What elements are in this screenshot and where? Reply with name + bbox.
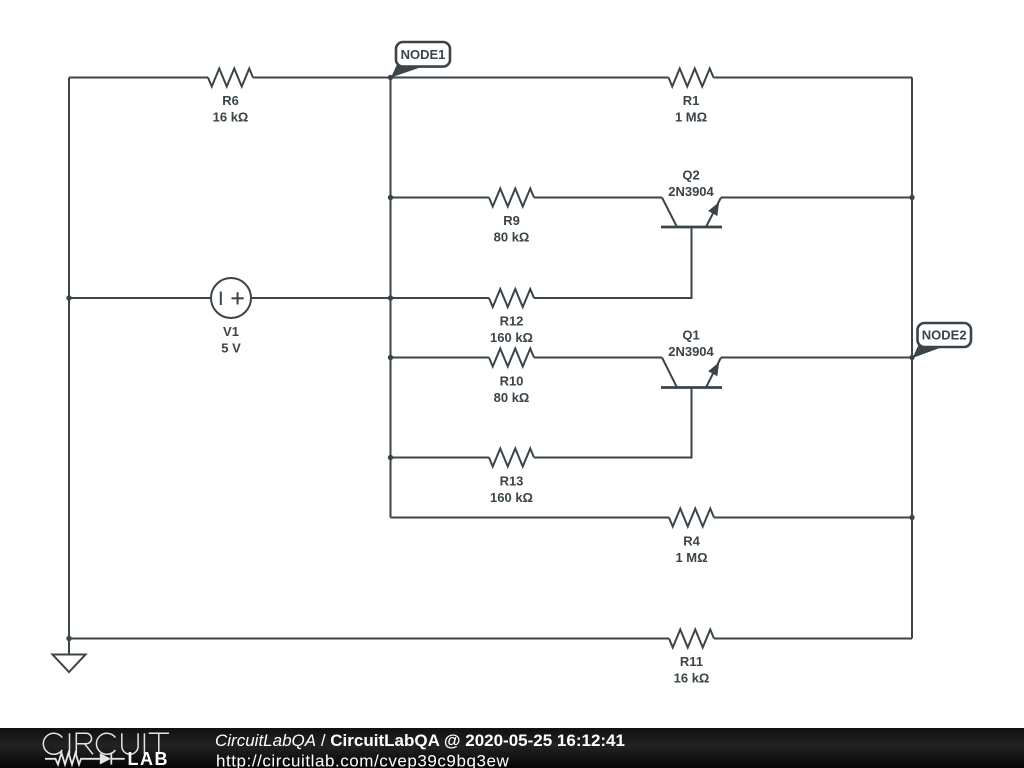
resistor R1 <box>669 69 714 87</box>
wire <box>534 197 662 199</box>
wire <box>69 638 669 640</box>
junction <box>909 515 914 520</box>
svg-text:16 kΩ: 16 kΩ <box>213 110 249 125</box>
wire <box>911 78 913 639</box>
resistor R11 label <box>674 654 710 686</box>
svg-text:R4: R4 <box>683 534 700 549</box>
voltage source V1 <box>211 278 251 318</box>
svg-text:V1: V1 <box>223 324 239 339</box>
junction <box>388 295 393 300</box>
CircuitLab logo diode <box>100 753 111 765</box>
voltage source V1 label <box>221 324 241 356</box>
footer bar <box>0 728 1024 768</box>
resistor R13 label <box>490 474 533 506</box>
svg-text:Q1: Q1 <box>682 328 699 343</box>
svg-text:LAB: LAB <box>128 749 170 768</box>
svg-text:R1: R1 <box>683 93 700 108</box>
wire <box>534 388 692 458</box>
ground <box>53 639 86 673</box>
svg-text:R6: R6 <box>222 93 239 108</box>
svg-text:2N3904: 2N3904 <box>668 184 714 199</box>
wire <box>534 227 692 298</box>
resistor R11 <box>669 630 714 648</box>
node flag NODE2 <box>913 323 972 358</box>
wire <box>721 357 912 359</box>
resistor R10 label <box>494 374 530 406</box>
wire <box>714 77 913 79</box>
svg-text:R12: R12 <box>500 314 524 329</box>
junction <box>388 455 393 460</box>
svg-text:R13: R13 <box>500 474 524 489</box>
resistor R12 label <box>490 314 533 346</box>
CircuitLab logo CIRCUIT lettering <box>43 733 169 754</box>
wire <box>390 78 392 518</box>
junction <box>909 195 914 200</box>
svg-text:2N3904: 2N3904 <box>668 344 714 359</box>
wire <box>714 517 912 519</box>
resistor R9 <box>489 189 534 207</box>
wire <box>721 197 912 199</box>
transistor Q1 <box>661 358 722 388</box>
wire <box>391 517 670 519</box>
resistor R6 <box>208 69 253 87</box>
wire <box>253 77 669 79</box>
wire <box>714 638 912 640</box>
svg-text:R11: R11 <box>680 654 703 669</box>
svg-text:http://circuitlab.com/cvep39c9: http://circuitlab.com/cvep39c9bq3ew <box>216 751 509 768</box>
resistor R1 label <box>675 93 707 125</box>
resistor R10 <box>489 349 534 367</box>
transistor Q2 <box>661 198 722 228</box>
wire <box>391 197 490 199</box>
svg-text:1 MΩ: 1 MΩ <box>675 550 707 565</box>
resistor R12 <box>489 289 534 307</box>
svg-text:R9: R9 <box>503 213 520 228</box>
svg-text:NODE2: NODE2 <box>922 328 967 343</box>
transistor Q2 label <box>668 168 714 200</box>
transistor Q1 label <box>668 328 714 360</box>
svg-text:NODE1: NODE1 <box>401 47 446 62</box>
junction <box>66 636 71 641</box>
resistor R13 <box>489 449 534 467</box>
svg-text:16 kΩ: 16 kΩ <box>674 671 710 686</box>
svg-text:5 V: 5 V <box>221 341 241 356</box>
wire <box>391 357 490 359</box>
wire <box>391 457 490 459</box>
resistor R4 label <box>675 534 707 566</box>
svg-text:80 kΩ: 80 kΩ <box>494 390 530 405</box>
wire <box>251 297 489 299</box>
wire <box>69 77 208 79</box>
node NODE2 junction <box>909 355 914 360</box>
junction <box>388 195 393 200</box>
wire <box>534 357 662 359</box>
resistor R9 label <box>494 213 530 245</box>
node NODE1 junction <box>388 75 393 80</box>
svg-text:160 kΩ: 160 kΩ <box>490 490 533 505</box>
junction <box>388 355 393 360</box>
CircuitLab logo resistor-diode strip <box>45 753 125 765</box>
svg-text:CircuitLabQA / CircuitLabQA @: CircuitLabQA / CircuitLabQA @ 2020-05-25… <box>215 731 625 750</box>
junction <box>66 295 71 300</box>
resistor R4 <box>669 509 714 527</box>
node flag NODE1 <box>391 42 450 78</box>
wire <box>69 297 211 299</box>
transistor Q2 emitter arrow <box>708 202 719 216</box>
svg-text:Q2: Q2 <box>682 168 699 183</box>
transistor Q1 emitter arrow <box>708 362 719 376</box>
svg-text:1 MΩ: 1 MΩ <box>675 110 707 125</box>
wire <box>68 78 70 639</box>
svg-text:80 kΩ: 80 kΩ <box>494 230 530 245</box>
svg-text:R10: R10 <box>500 374 524 389</box>
resistor R6 label <box>213 93 249 125</box>
svg-text:160 kΩ: 160 kΩ <box>490 330 533 345</box>
